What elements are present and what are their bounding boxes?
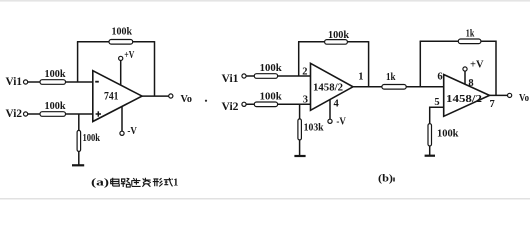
wire Vi1 to inverting input <box>28 81 93 83</box>
svg-text:1: 1 <box>173 177 178 189</box>
wire noninverting node to ground <box>78 114 80 165</box>
resistor R8 103k (to ground) <box>298 119 324 140</box>
svg-text:Vo: Vo <box>519 92 529 104</box>
node Vi2 (circuit a input terminal) <box>6 108 28 120</box>
power +V pin (U2B) <box>463 60 484 85</box>
wire feedback top <box>77 41 155 43</box>
svg-text:Vi1: Vi1 <box>6 76 23 88</box>
node Vi1 (circuit b input terminal) <box>222 73 247 85</box>
svg-text:+V: +V <box>470 60 484 71</box>
resistor R3 100k (Vi2 series) <box>40 101 66 116</box>
svg-text:Vi2: Vi2 <box>222 101 239 113</box>
resistor R2 100k (feedback) <box>109 27 133 45</box>
svg-text:5: 5 <box>434 97 439 108</box>
resistor R1 100k (Vi1 series) <box>40 69 66 84</box>
top scan edge <box>0 0 530 2</box>
ground (circuit a) <box>72 164 84 166</box>
wire feedback right vertical <box>154 41 156 96</box>
caption (b) <box>378 173 394 184</box>
resistor R10 1k (feedback B) <box>458 29 481 44</box>
svg-text:Vo: Vo <box>181 93 193 105</box>
wire feedback B top <box>420 40 496 42</box>
wire Vi1 to pin 2 <box>246 75 310 77</box>
wire pin 3 node to ground <box>299 104 301 155</box>
svg-text:100k: 100k <box>260 91 282 102</box>
wire feedback A left vertical <box>298 42 300 76</box>
wire stage1 output to pin 6 <box>353 86 444 88</box>
svg-text:(b): (b) <box>378 173 394 184</box>
svg-text:+V: +V <box>124 50 134 61</box>
node Vi2 (circuit b input terminal) <box>222 101 247 113</box>
svg-text:1458/2: 1458/2 <box>446 93 483 105</box>
resistor R5 100k (Vi1 series) <box>254 63 282 78</box>
ground (circuit b stage 2) <box>425 155 435 157</box>
resistor R11 100k (pin 5 to ground) <box>428 124 459 155</box>
resistor R6 100k (feedback A) <box>325 30 350 44</box>
op-amp U1 741 <box>93 71 142 122</box>
node Vo (circuit a output terminal) <box>169 93 193 105</box>
power -V pin (U2A) <box>328 99 346 127</box>
resistor R9 1k (series between stages) <box>382 72 406 89</box>
wire pin 5 to ground resistor <box>430 107 444 123</box>
wire output (circuit b) <box>490 94 508 96</box>
power +V pin (U1) <box>119 50 135 85</box>
ground (circuit b stage 1) <box>294 155 305 157</box>
svg-text:100k: 100k <box>112 27 133 38</box>
node Vo (circuit b output terminal) <box>508 92 530 104</box>
svg-text:1: 1 <box>358 72 363 83</box>
svg-text:1458/2: 1458/2 <box>313 83 343 94</box>
wire feedback A top <box>298 41 369 43</box>
wire Vi2 to noninverting input <box>28 113 93 115</box>
svg-text:100k: 100k <box>328 30 349 41</box>
op-amp U2B 1458/2 <box>444 75 490 117</box>
svg-text:100k: 100k <box>260 63 282 74</box>
caption (a) circuit connection form 1 <box>91 177 178 189</box>
wire feedback B left vertical <box>419 41 421 87</box>
node Vi1 (circuit a input terminal) <box>6 76 28 88</box>
svg-text:4: 4 <box>334 99 340 110</box>
svg-text:1k: 1k <box>386 72 396 83</box>
svg-text:-V: -V <box>336 117 346 128</box>
svg-text:1k: 1k <box>466 29 475 40</box>
resistor R4 100k (to ground) <box>77 130 100 151</box>
svg-text:Vi2: Vi2 <box>6 108 23 120</box>
wire feedback left vertical <box>77 42 79 82</box>
svg-text:3: 3 <box>303 95 308 106</box>
stray dot <box>205 100 207 102</box>
svg-text:8: 8 <box>468 78 473 89</box>
resistor R7 100k (Vi2 series) <box>254 91 282 106</box>
svg-text:100k: 100k <box>83 133 101 144</box>
svg-text:Vi1: Vi1 <box>222 73 239 85</box>
op-amp U2A 1458/2 <box>311 63 354 110</box>
svg-text:(a): (a) <box>91 177 109 189</box>
svg-text:100k: 100k <box>45 101 66 112</box>
svg-text:7: 7 <box>490 99 495 110</box>
wire feedback A right vertical <box>368 41 370 87</box>
wire output (circuit a) <box>142 95 169 97</box>
wire feedback B right vertical <box>495 41 497 96</box>
power -V pin (U1) <box>120 106 137 137</box>
bottom scan line <box>0 198 530 199</box>
svg-text:103k: 103k <box>304 123 324 134</box>
wire Vi2 to pin 3 <box>246 103 310 105</box>
svg-text:6: 6 <box>437 72 442 83</box>
svg-text:741: 741 <box>104 91 119 103</box>
svg-text:2: 2 <box>302 67 307 78</box>
svg-text:100k: 100k <box>45 69 66 80</box>
svg-text:-V: -V <box>127 126 137 137</box>
svg-text:100k: 100k <box>437 129 459 140</box>
